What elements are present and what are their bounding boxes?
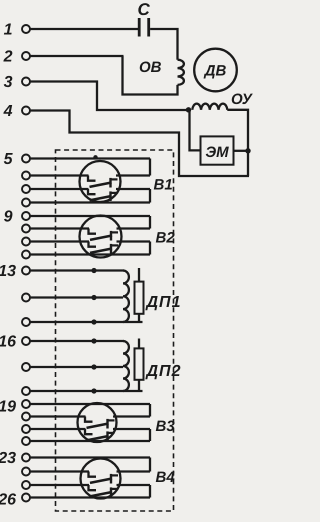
svg-text:ДП2: ДП2 — [145, 363, 182, 380]
terminal 13 — [22, 267, 30, 275]
junction dot DP1 middle — [91, 295, 96, 300]
hairpin B4 pair-A — [149, 458, 151, 472]
switch В1 upper contact step — [88, 176, 96, 181]
terminal 9 — [22, 212, 30, 220]
switch В1 upper contact blade — [90, 183, 112, 187]
EM right stub — [234, 150, 249, 152]
wire terminal 2 to OB loop — [31, 55, 124, 57]
wire B3 pair-A top — [31, 403, 151, 405]
svg-text:5: 5 — [4, 151, 14, 168]
svg-text:16: 16 — [0, 334, 16, 351]
wire from terminal 1 to capacitor — [31, 28, 139, 30]
terminal 21 — [22, 425, 30, 433]
EM left stub — [190, 111, 201, 151]
terminal 18 — [22, 387, 30, 395]
resistor element ДП1 — [135, 282, 144, 314]
junction speck on wire 5 — [93, 155, 97, 159]
label В2 — [156, 230, 176, 247]
svg-text:4: 4 — [3, 103, 13, 120]
label terminal 23 — [0, 450, 16, 467]
wire capacitor to OB coil top — [150, 29, 177, 60]
switch В1 lower fixed contact — [111, 191, 118, 201]
field winding OV coil — [178, 60, 184, 85]
junction dot DP2 bottom — [91, 388, 96, 393]
label terminal 9 — [4, 209, 13, 226]
capacitor C — [138, 18, 150, 37]
terminal 1 — [22, 25, 30, 33]
terminal 12 — [22, 251, 30, 259]
switch В3 lower contact step — [85, 429, 93, 434]
junction dot DP2 top — [91, 338, 96, 343]
svg-text:ОУ: ОУ — [231, 91, 254, 108]
control winding OU coil — [192, 104, 227, 110]
wire B4 pair-A top — [31, 456, 151, 458]
label terminal 3 — [4, 74, 13, 91]
label terminal 16 — [0, 334, 16, 351]
terminal 15 — [22, 318, 30, 326]
switch В4 lower fixed contact — [111, 487, 118, 497]
terminal 5 — [22, 155, 30, 163]
wire B3 upper contact incoming — [31, 415, 86, 417]
label terminal 26 — [0, 492, 16, 509]
hairpin B2 pair-A — [149, 216, 151, 229]
wire B3 lower contact incoming — [31, 428, 86, 430]
terminal 22 — [22, 437, 30, 445]
switch В3 upper contact blade — [87, 424, 109, 428]
wire DP2 top — [31, 340, 125, 342]
winding ДП1 coil — [123, 271, 129, 323]
terminal 25 — [22, 481, 30, 489]
svg-text:ЭМ: ЭМ — [205, 144, 229, 161]
wire B2 upper contact incoming — [31, 227, 90, 229]
svg-text:2: 2 — [3, 49, 13, 66]
wire B2 pair-A top — [31, 215, 151, 217]
switch В3 lower fixed contact — [108, 431, 115, 441]
label ДП1 — [145, 294, 182, 311]
switch В2 lower fixed contact — [111, 244, 118, 254]
label EM — [205, 144, 229, 161]
wire B2 upper contact outgoing — [117, 227, 151, 229]
hairpin B3 pair-B — [149, 429, 151, 441]
wire B2 lower contact outgoing — [117, 240, 151, 242]
terminal 16 — [22, 337, 30, 345]
svg-text:9: 9 — [4, 209, 13, 226]
switch В4 lower contact step — [89, 485, 97, 490]
label terminal 4 — [3, 103, 13, 120]
switch В1 lower contact blade — [90, 196, 112, 200]
wire B1 pair-A top — [31, 157, 151, 159]
junction dot right — [245, 148, 250, 153]
label terminal 19 — [0, 399, 16, 416]
terminal 23 — [22, 454, 30, 462]
svg-text:13: 13 — [0, 263, 16, 280]
label terminal 5 — [4, 151, 14, 168]
switch В1 circle — [80, 161, 121, 202]
terminal 11 — [22, 238, 30, 246]
resistor element ДП2 — [135, 348, 144, 379]
wire OB coil bottom loop — [123, 56, 178, 95]
stub ДП2 top — [138, 339, 140, 349]
stub ДП1 bottom — [138, 314, 140, 322]
svg-text:В1: В1 — [154, 177, 173, 194]
wire B3 pair-B bottom — [31, 440, 151, 442]
switch В4 lower contact blade — [90, 492, 112, 496]
terminal 14 — [22, 294, 30, 302]
wire B2 lower contact incoming — [31, 240, 90, 242]
label OV — [139, 59, 162, 76]
label В4 — [156, 469, 176, 486]
wire DP1 middle tap — [31, 296, 124, 298]
junction dot DP1 top — [91, 268, 96, 273]
wire B3 upper contact outgoing — [113, 415, 150, 417]
svg-text:ДВ: ДВ — [203, 63, 227, 80]
wire DP1 top — [31, 269, 125, 271]
wire B4 pair-B bottom — [31, 496, 151, 498]
terminal 4 — [22, 107, 30, 115]
switch В3 lower contact blade — [87, 436, 109, 440]
svg-text:В2: В2 — [156, 230, 176, 247]
stub ДП2 bottom — [138, 380, 140, 391]
svg-text:В3: В3 — [156, 418, 176, 435]
switch В3 upper contact step — [85, 417, 93, 422]
label terminal 2 — [3, 49, 13, 66]
svg-text:26: 26 — [0, 492, 16, 509]
svg-text:19: 19 — [0, 399, 16, 416]
label C — [138, 0, 151, 19]
svg-text:3: 3 — [4, 74, 13, 91]
terminal 20 — [22, 413, 30, 421]
switch В4 upper contact step — [89, 472, 97, 477]
switch В2 circle — [80, 216, 122, 258]
hairpin B4 pair-B — [149, 485, 151, 498]
label OU — [231, 91, 254, 108]
terminal 26 — [22, 494, 30, 502]
stub ДП1 top — [138, 268, 140, 282]
wire B1 upper contact incoming — [31, 174, 89, 176]
switch В3 upper fixed contact — [108, 419, 115, 429]
label DV — [203, 63, 227, 80]
terminal 10 — [22, 225, 30, 233]
switch В4 upper contact blade — [90, 479, 112, 483]
switch В2 lower contact step — [89, 242, 97, 247]
wire B4 lower contact incoming — [31, 484, 90, 486]
winding ДП2 coil — [123, 341, 129, 391]
wire OU coil to right corner down — [227, 110, 248, 176]
terminal 3 — [22, 78, 30, 86]
electromagnet EM box — [201, 136, 234, 164]
wire B4 upper contact incoming — [31, 470, 90, 472]
label terminal 13 — [0, 263, 16, 280]
label В3 — [156, 418, 176, 435]
wire B3 lower contact outgoing — [113, 428, 150, 430]
wire B2 pair-B bottom — [31, 253, 151, 255]
terminal 2 — [22, 52, 30, 60]
svg-text:1: 1 — [4, 22, 13, 39]
label terminal 1 — [4, 22, 13, 39]
label ДП2 — [145, 363, 182, 380]
svg-text:23: 23 — [0, 450, 16, 467]
switch В1 upper fixed contact — [111, 178, 118, 188]
switch В2 upper contact step — [89, 229, 97, 234]
wire 4 long path — [31, 111, 250, 177]
svg-text:В4: В4 — [156, 469, 176, 486]
svg-text:ОВ: ОВ — [139, 59, 162, 76]
wire DP2 middle tap — [31, 366, 124, 368]
junction dot DP1 bottom — [91, 319, 96, 324]
wire B1 pair-B bottom — [31, 201, 151, 203]
switch В2 upper fixed contact — [111, 231, 118, 241]
terminal 6 — [22, 172, 30, 180]
wire B4 upper contact outgoing — [117, 470, 151, 472]
terminal 19 — [22, 400, 30, 408]
terminal 8 — [22, 199, 30, 207]
terminal 7 — [22, 185, 30, 193]
wire 3 to bus — [31, 82, 188, 111]
switch В4 circle — [81, 459, 121, 499]
wire B1 upper contact outgoing — [116, 174, 150, 176]
wire DP2 bottom — [31, 390, 143, 392]
motor DV circle — [194, 49, 237, 92]
junction dot bus — [186, 107, 191, 112]
switch В2 lower contact blade — [90, 249, 112, 253]
switch В1 lower contact step — [88, 189, 96, 194]
svg-text:С: С — [138, 0, 151, 19]
svg-text:ДП1: ДП1 — [145, 294, 182, 311]
terminal 17 — [22, 363, 30, 371]
wire B4 lower contact outgoing — [117, 484, 151, 486]
switch В4 upper fixed contact — [111, 474, 118, 484]
wire B1 lower contact incoming — [31, 188, 89, 190]
hairpin B2 pair-B — [149, 242, 151, 255]
hairpin B1 pair-B — [149, 189, 151, 203]
label В1 — [154, 177, 173, 194]
switch В3 circle — [78, 403, 117, 442]
dashed boundary box — [56, 150, 174, 511]
switch В2 upper contact blade — [90, 236, 112, 240]
hairpin B1 pair-A — [149, 159, 151, 176]
junction dot DP2 middle — [91, 364, 96, 369]
terminal 24 — [22, 468, 30, 476]
hairpin B3 pair-A — [149, 404, 151, 417]
wire DP1 bottom — [31, 321, 143, 323]
wire B1 lower contact outgoing — [116, 188, 150, 190]
